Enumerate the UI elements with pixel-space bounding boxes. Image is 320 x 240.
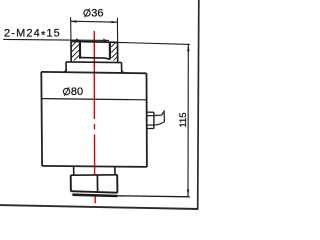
washer left fillet <box>64 69 66 72</box>
section hatch right band <box>111 42 117 61</box>
leader arrow 2 (right thread) <box>103 39 108 42</box>
extension line right of ⌀36 <box>116 18 118 43</box>
body bottom edge <box>42 166 147 167</box>
⌀80 line across body <box>42 99 147 100</box>
washer top edge <box>66 61 122 64</box>
115 top arrow <box>187 45 189 51</box>
drawing frame right border <box>198 0 199 210</box>
cable connector flange plate <box>147 112 154 128</box>
bottom neck left edge <box>73 167 75 175</box>
body top edge <box>41 72 146 73</box>
label ⌀80 <box>63 86 83 98</box>
drawing frame bottom border <box>0 205 198 209</box>
section hatch left band <box>71 41 79 60</box>
body right edge <box>146 73 148 167</box>
top boss left edge <box>70 41 72 62</box>
top boss right edge <box>117 42 119 62</box>
bottom block left edge <box>70 175 72 191</box>
dimension line ⌀36 <box>70 21 117 22</box>
threaded hole left wall <box>79 41 81 59</box>
washer right edge <box>121 63 123 73</box>
bottom block top edge <box>71 174 118 176</box>
svg-text:80: 80 <box>71 86 83 98</box>
dimension text ⌀36 <box>84 7 104 19</box>
115 dimension line <box>187 45 189 196</box>
leader arrow 1 (left thread) <box>76 38 81 41</box>
top boss top edge <box>71 41 118 42</box>
bottom block inner vertical line <box>96 175 98 192</box>
svg-text:115: 115 <box>178 112 189 127</box>
extension line left of ⌀36 <box>70 17 72 41</box>
washer left edge <box>65 62 67 71</box>
leader line of 2-M24*15 <box>3 39 109 40</box>
bottom surface thick baseline <box>72 195 117 196</box>
threaded hole bottom <box>80 58 110 60</box>
body left edge <box>40 72 43 166</box>
arrow left of ⌀36 dim <box>71 20 77 22</box>
bottom neck right edge <box>114 168 116 175</box>
bottom block right edge <box>116 175 118 193</box>
bottom extension line to 115 dim <box>118 196 190 197</box>
threaded hole right wall <box>109 42 111 60</box>
washer right fillet <box>122 70 124 73</box>
extension line from top surface to 115 dim <box>118 42 190 44</box>
centerline (red dash-dot vertical axis) <box>93 31 96 203</box>
cable gland outlet <box>154 111 165 125</box>
arrow right of ⌀36 dim <box>111 21 117 23</box>
svg-text:36: 36 <box>91 7 103 19</box>
115 bottom arrow <box>187 190 189 196</box>
bottom block bottom edge <box>71 191 118 193</box>
